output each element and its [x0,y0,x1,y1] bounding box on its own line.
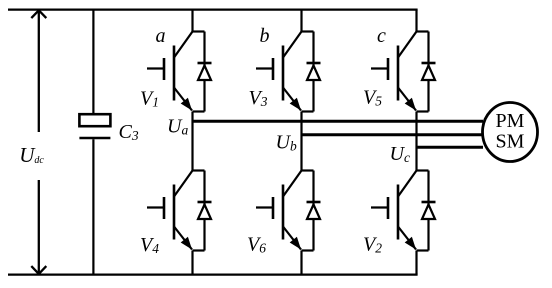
capacitor C3 [79,114,110,138]
wire leg c emitter to bottom rail [415,251,417,275]
freewheeling diode of V2 [422,171,436,251]
wire capacitor bottom lead [92,139,94,274]
svg-text:V6: V6 [247,234,266,256]
bottom DC bus rail [8,274,418,276]
wire leg c upper emitter jog [417,110,429,112]
IGBT V4 [147,171,193,250]
wire leg c midpoint [415,112,417,171]
IGBT V6 [256,171,302,250]
IGBT V2 [371,171,417,250]
wire leg a midpoint [191,112,193,171]
wire phase a output line (node Ua) [193,120,484,123]
svg-text:V5: V5 [363,87,382,109]
wire leg b collector from top rail [300,10,302,32]
wire phase b output line (node Ub) [302,133,484,136]
svg-text:SM: SM [496,131,525,153]
wire leg b bottom jog [302,249,314,251]
wire leg b lower collector jog [302,169,314,171]
wire leg a collector from top rail [191,10,193,32]
svg-text:Ub: Ub [276,132,297,154]
motor PM SM [483,103,538,162]
freewheeling diode of V4 [198,171,212,251]
wire leg a upper emitter jog [193,110,205,112]
svg-text:C3: C3 [119,121,139,143]
wire leg c top jog to diode [417,30,429,32]
svg-text:b: b [260,25,270,47]
wire leg b midpoint [300,112,302,171]
freewheeling diode of V5 [422,32,436,112]
Udc measurement double arrow [31,10,46,274]
svg-text:V3: V3 [249,87,268,109]
IGBT V5 [371,32,417,111]
wire leg b top jog to diode [302,30,314,32]
freewheeling diode of V1 [198,32,212,112]
svg-text:V4: V4 [140,234,159,256]
svg-text:PM: PM [496,110,525,132]
wire phase c output line (node Uc) [417,146,484,149]
freewheeling diode of V6 [307,171,321,251]
wire leg b emitter to bottom rail [300,251,302,275]
wire leg a bottom jog [193,249,205,251]
svg-text:c: c [377,25,386,47]
IGBT V1 [147,32,193,111]
svg-text:Uc: Uc [390,143,410,165]
wire capacitor top lead [92,10,94,115]
svg-text:V1: V1 [140,88,159,110]
wire leg c bottom jog [417,249,429,251]
wire leg a lower collector jog [193,169,205,171]
svg-text:Ua: Ua [167,116,188,138]
wire leg a emitter to bottom rail [191,251,193,275]
wire leg b upper emitter jog [302,110,314,112]
IGBT V3 [256,32,302,111]
svg-text:a: a [156,25,166,47]
svg-text:Udc: Udc [19,143,44,167]
top DC bus rail [8,9,418,11]
wire leg a top jog to diode [193,30,205,32]
wire leg c collector from top rail [415,10,417,32]
svg-text:V2: V2 [363,234,382,256]
wire leg c lower collector jog [417,169,429,171]
freewheeling diode of V3 [307,32,321,112]
